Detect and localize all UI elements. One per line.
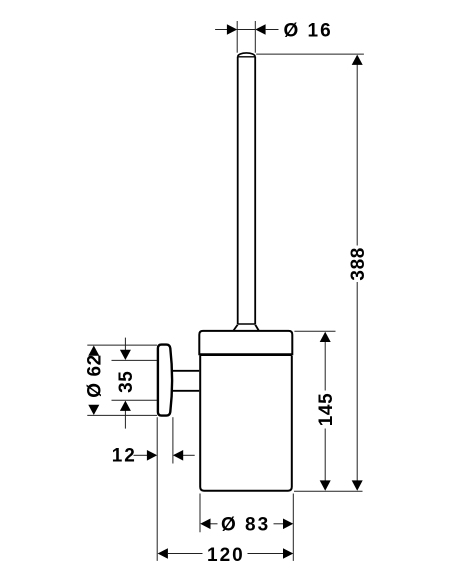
dimension 388: bottom extension line [294, 490, 363, 492]
dimension 12: arrowheads [147, 450, 183, 461]
dimension 12: dimension line [134, 454, 195, 456]
dimension Ø62: arrowheads [88, 346, 99, 416]
svg-text:Ø 62: Ø 62 [85, 354, 106, 398]
dimension 145: arrowheads [320, 332, 331, 491]
dimension 120: dimension line [168, 553, 283, 555]
dimension 120: arrowheads [158, 548, 294, 559]
dimension 35: dimension line [124, 338, 126, 429]
dimension Ø83: extension lines [200, 494, 293, 561]
svg-text:120: 120 [207, 545, 245, 566]
mounting arm [171, 371, 199, 391]
dimension Ø16: dimension line [215, 29, 278, 31]
svg-text:145: 145 [316, 393, 337, 427]
dimension 388: top extension line [256, 53, 364, 55]
container body [200, 356, 292, 491]
dimension Ø16: arrowheads [227, 24, 266, 35]
dimension 145: dimension line [324, 342, 326, 482]
dimension 35: extension lines [112, 360, 158, 400]
lid bottom rim [199, 353, 292, 356]
handle flare into lid [233, 325, 258, 331]
dimension 145: top extension line [294, 330, 335, 332]
dimension Ø83: dimension line [210, 523, 283, 525]
svg-text:Ø 83: Ø 83 [221, 515, 270, 536]
dimension Ø62: extension lines [87, 345, 157, 415]
svg-text:12: 12 [112, 445, 137, 466]
dimension Ø83: arrowheads [200, 519, 293, 530]
wall mounting disc [158, 345, 172, 416]
svg-text:35: 35 [116, 371, 137, 393]
dimension Ø16: extension lines [237, 21, 255, 53]
container lid [199, 331, 292, 355]
dimension 12: extension lines [157, 417, 173, 561]
svg-text:Ø 16: Ø 16 [284, 20, 333, 41]
dimension 388: dimension line [356, 64, 358, 481]
dimension 35: arrowheads [120, 350, 131, 411]
dimension 388: arrowheads [352, 55, 363, 491]
svg-text:388: 388 [348, 247, 369, 281]
brush handle rod [238, 53, 256, 324]
rod joint line [238, 323, 256, 325]
